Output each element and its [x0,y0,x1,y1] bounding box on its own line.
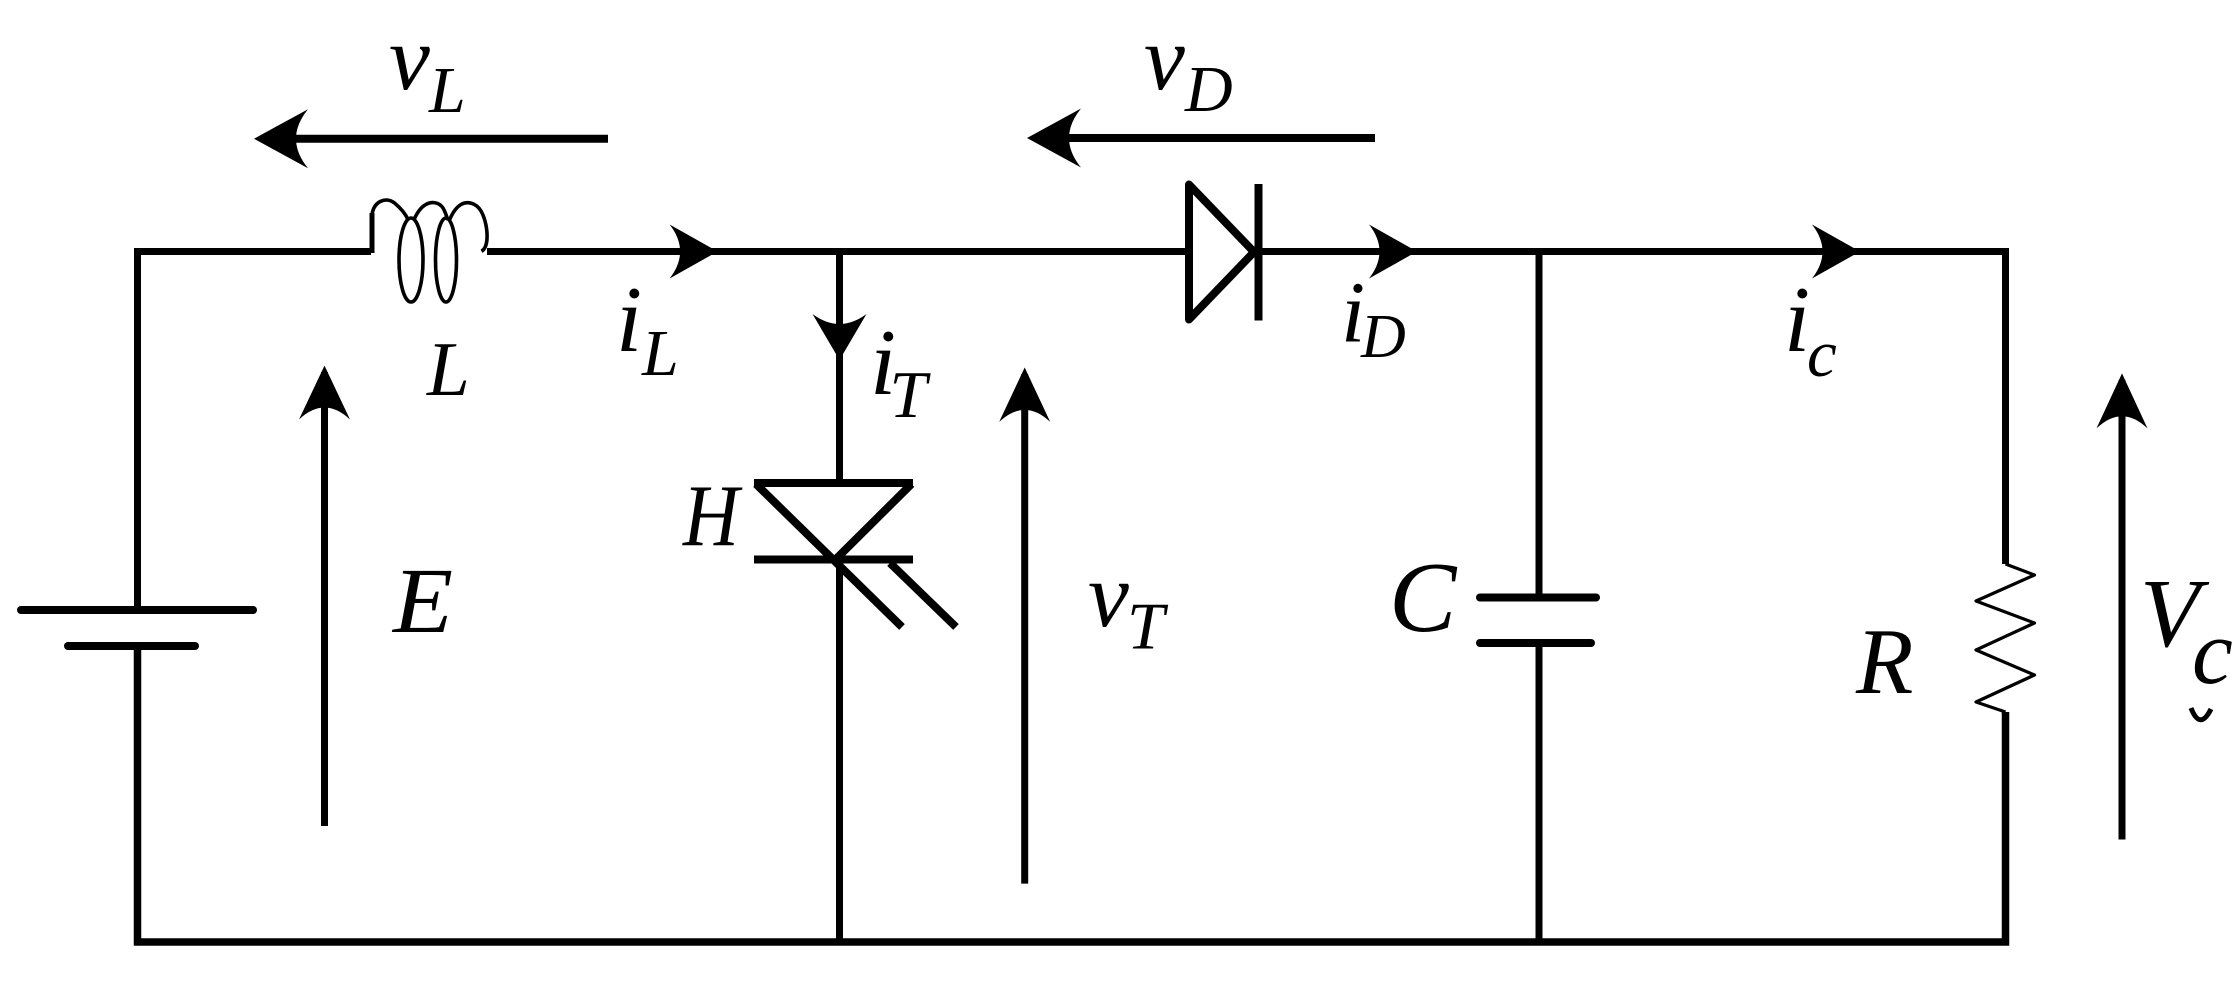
arrowhead i_L on top wire points right [670,225,718,279]
thyristor H right edge [835,484,912,560]
svg-text:L: L [428,54,466,127]
svg-text:L: L [641,317,679,390]
svg-text:D: D [1184,53,1233,126]
stray hook mark below V_c subscript [2191,708,2211,720]
svg-text:R: R [1855,610,1913,714]
svg-text:H: H [682,468,743,565]
battery E top plate [21,606,253,614]
svg-text:E: E [391,550,453,653]
arrowhead i_D after diode points right [1369,225,1417,279]
thyristor H cathode bar [754,556,913,564]
arrowhead i_c before load branch points right [1812,225,1860,279]
arrowhead v_L points left [254,109,308,168]
svg-text:v: v [1088,544,1129,646]
arrow line E [321,372,328,826]
capacitor C bottom plate [1480,639,1591,647]
svg-text:L: L [426,326,470,412]
diode D triangle [1189,185,1254,320]
wire capacitor branch lower [1536,644,1543,942]
wire top-left segment from source to inductor [138,252,372,608]
svg-text:D: D [1360,303,1406,371]
thyristor H top edge [754,479,913,487]
resistor R zigzag [1976,564,2035,712]
svg-text:v: v [389,7,430,109]
inductor L coil loop 1 [399,218,423,302]
inductor L coil hump 1 [372,200,408,219]
svg-text:i: i [616,268,642,372]
capacitor C top plate [1480,594,1596,602]
arrow line v_T [1021,374,1028,884]
thyristor H second gate diagonal [890,563,956,627]
arrowhead v_T points up [999,368,1050,422]
arrow line V_c [2119,380,2126,840]
svg-text:T: T [890,358,932,432]
arrowhead V_c points up [2097,373,2148,428]
svg-text:C: C [1389,541,1458,653]
wire thyristor branch upper [836,252,843,484]
svg-text:T: T [1127,590,1169,664]
wire capacitor branch upper [1536,252,1543,597]
arrow line v_D [1035,134,1375,142]
arrowhead i_T points down on thyristor branch [813,314,867,360]
diode D cathode bar [1255,184,1263,321]
thyristor H long diagonal left edge extended [756,484,902,627]
wire bottom loop: left wire below battery, bottom wire, right wire below resistor [138,648,2006,942]
wire top right segment from diode to right corner down to resistor [1256,252,2006,565]
inductor L coil hump 2 [414,203,448,220]
wire thyristor branch lower [836,558,843,942]
inductor L lead jog [370,213,375,253]
arrow line v_L [262,135,608,143]
inductor L coil hump 3 [450,203,488,252]
svg-text:v: v [1144,7,1185,109]
wire top middle segment from inductor to diode [487,248,1191,255]
arrowhead v_D points left [1027,109,1081,168]
arrowhead E points up [299,366,350,420]
inductor L coil loop 2 [436,218,457,302]
svg-text:c: c [1807,317,1837,391]
battery E bottom plate [68,642,195,650]
svg-text:c: c [2192,601,2233,703]
